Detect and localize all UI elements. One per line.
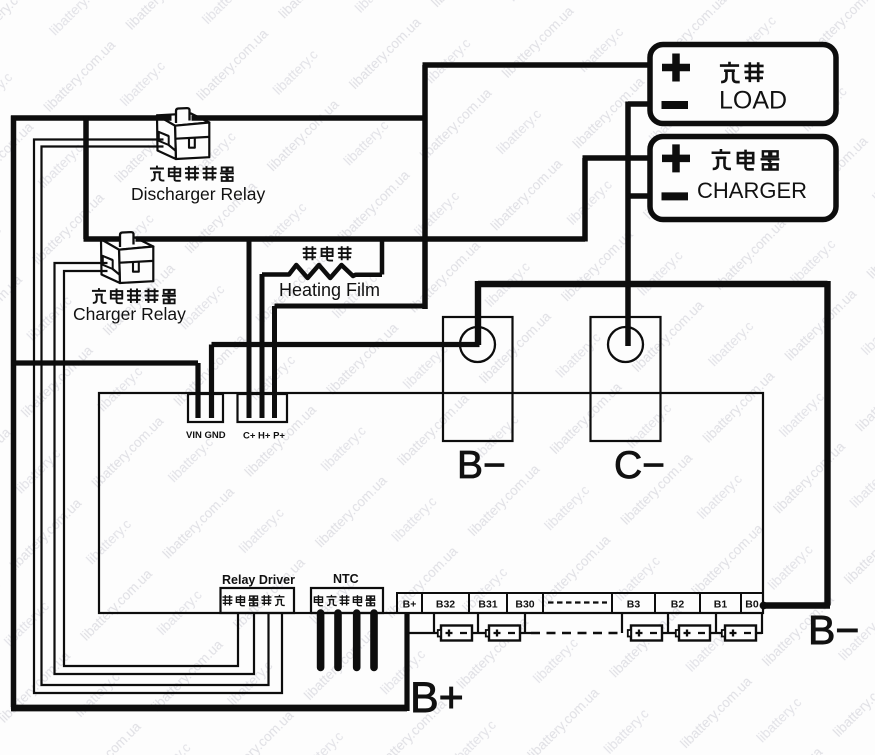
svg-text:Relay Driver: Relay Driver (222, 573, 295, 587)
wire: B+ terminal drop (404, 613, 409, 711)
discharger relay labels (150, 166, 164, 181)
wire: GND to B- sensor (212, 345, 480, 419)
svg-text:B2: B2 (671, 599, 685, 611)
LOAD labels (720, 62, 740, 82)
wire: bottom B+ run (11, 705, 407, 712)
charger relay bail handle (120, 232, 134, 247)
svg-text:B31: B31 (478, 599, 497, 611)
NTC connector box (311, 588, 383, 613)
svg-text:C−: C− (614, 444, 665, 487)
battery cell 5 (722, 626, 756, 641)
wire: charger branch (through charger relay) (84, 116, 651, 242)
connector C+ H+ P+ box (238, 394, 288, 422)
dashed mark in strip (548, 601, 607, 603)
svg-text:B+: B+ (403, 599, 417, 611)
svg-text:Discharger Relay: Discharger Relay (131, 184, 265, 204)
cell interconnect wire (407, 613, 762, 634)
svg-text:B30: B30 (515, 599, 534, 611)
wire: riser to LOAD+ (423, 65, 651, 309)
CHARGER box (650, 137, 836, 220)
wire: left B+ vertical (11, 116, 17, 708)
heating film labels (303, 246, 317, 260)
wire: C+ pin drop (247, 239, 252, 418)
junction dot at B0 (760, 602, 768, 610)
svg-text:Charger Relay: Charger Relay (73, 304, 186, 324)
charger relay labels (92, 288, 106, 303)
svg-text:CHARGER: CHARGER (697, 178, 807, 203)
relay driver pin wires (discharger coil pair) (34, 140, 282, 694)
battery cell 2 (486, 626, 520, 641)
discharger relay bail handle (176, 108, 190, 123)
cell interconnect dashed section (531, 632, 620, 634)
wire: CHARGER- stub (628, 193, 650, 199)
Relay Driver connector box (221, 588, 295, 613)
wire: LOAD- / C- sensor vertical (628, 102, 650, 347)
BMS board outline (99, 393, 763, 613)
svg-text:C+ H+ P+: C+ H+ P+ (243, 431, 285, 442)
battery cell 4 (676, 626, 710, 641)
svg-text:B−: B− (457, 444, 506, 487)
svg-text:B−: B− (808, 607, 859, 653)
LOAD box (650, 45, 836, 124)
CHARGER labels (712, 149, 731, 169)
wire: B+ rail top (through discharger relay) (11, 115, 427, 121)
svg-text:B3: B3 (627, 599, 641, 611)
wire: P+ branch (275, 306, 426, 418)
current sensor C- box (591, 317, 661, 441)
svg-text:B0: B0 (745, 599, 759, 611)
NTC probes (321, 613, 374, 668)
svg-text:B1: B1 (714, 599, 728, 611)
heating film element (262, 239, 382, 278)
battery cell 1 (438, 626, 472, 641)
svg-text:NTC: NTC (333, 572, 359, 586)
svg-text:B+: B+ (410, 674, 464, 722)
svg-text:B32: B32 (436, 599, 455, 611)
relay driver pin wires (charger coil pair) (55, 263, 255, 674)
battery cell 3 (628, 626, 662, 641)
wire: B- collector to B0 (478, 281, 830, 606)
wire: H+ pin drop (260, 274, 265, 418)
svg-text:LOAD: LOAD (719, 87, 787, 115)
svg-text:Heating Film: Heating Film (279, 280, 380, 300)
terminal strip dividers (422, 593, 741, 613)
charger relay body (101, 238, 153, 284)
cell terminal strip outline (397, 593, 763, 613)
current sensor B- box (443, 317, 513, 441)
current sensor C- circle (608, 327, 643, 362)
wire: VIN feed (11, 363, 198, 418)
current sensor B- circle (460, 327, 495, 362)
svg-text:VIN GND: VIN GND (186, 430, 226, 441)
discharger relay body (157, 114, 209, 160)
risers from strip to cell wire (434, 613, 716, 633)
connector VIN GND box (188, 394, 223, 422)
